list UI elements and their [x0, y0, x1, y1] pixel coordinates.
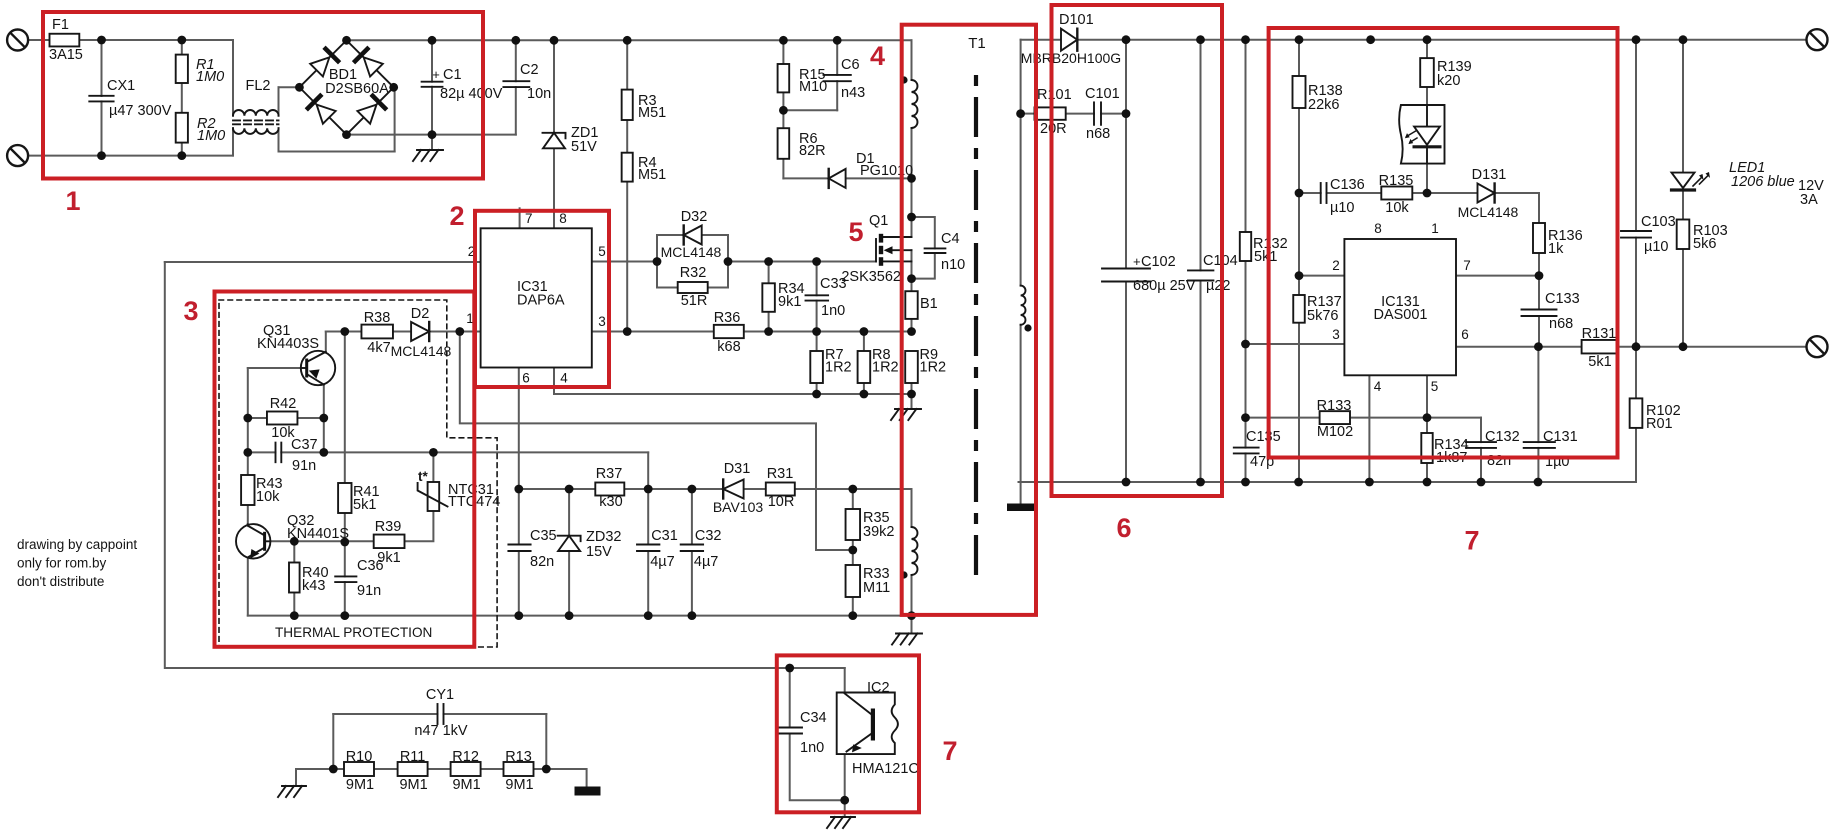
- svg-text:5k1: 5k1: [1254, 249, 1277, 265]
- svg-text:R10: R10: [346, 749, 373, 765]
- svg-text:2: 2: [449, 201, 464, 231]
- svg-text:7: 7: [1464, 526, 1479, 556]
- svg-text:1k: 1k: [1548, 241, 1564, 257]
- svg-text:82µ 400V: 82µ 400V: [440, 86, 503, 102]
- svg-text:9M1: 9M1: [452, 777, 480, 793]
- svg-text:3: 3: [1332, 327, 1340, 342]
- svg-text:HMA121C: HMA121C: [852, 761, 919, 777]
- svg-text:Q1: Q1: [869, 213, 888, 229]
- svg-text:MCL4148: MCL4148: [391, 343, 452, 359]
- svg-text:C34: C34: [800, 710, 827, 726]
- svg-text:n47 1kV: n47 1kV: [414, 723, 468, 739]
- svg-text:1n0: 1n0: [821, 303, 845, 319]
- svg-text:R31: R31: [767, 466, 794, 482]
- svg-text:10k: 10k: [256, 489, 280, 505]
- svg-text:3A: 3A: [1800, 192, 1818, 208]
- svg-text:D32: D32: [681, 209, 708, 225]
- svg-text:C136: C136: [1330, 177, 1365, 193]
- svg-text:k20: k20: [1437, 73, 1460, 89]
- svg-text:C133: C133: [1545, 291, 1580, 307]
- svg-text:C132: C132: [1485, 429, 1520, 445]
- svg-text:C135: C135: [1246, 429, 1281, 445]
- svg-text:µ10: µ10: [1330, 200, 1354, 216]
- svg-text:µ47 300V: µ47 300V: [109, 103, 172, 119]
- svg-text:5k1: 5k1: [353, 497, 376, 513]
- svg-text:DAP6A: DAP6A: [517, 293, 565, 309]
- svg-text:15V: 15V: [586, 544, 612, 560]
- svg-text:KN4403S: KN4403S: [257, 336, 319, 352]
- svg-text:3: 3: [183, 296, 198, 326]
- svg-text:8: 8: [559, 211, 567, 226]
- svg-text:6: 6: [522, 371, 530, 386]
- svg-text:THERMAL PROTECTION: THERMAL PROTECTION: [275, 625, 432, 640]
- svg-text:10k: 10k: [1385, 200, 1409, 216]
- svg-text:5: 5: [1431, 379, 1439, 394]
- svg-text:39k2: 39k2: [863, 524, 894, 540]
- svg-text:R37: R37: [596, 466, 623, 482]
- svg-text:C6: C6: [841, 57, 860, 73]
- svg-text:6: 6: [1116, 513, 1131, 543]
- svg-text:R12: R12: [452, 749, 479, 765]
- svg-text:51V: 51V: [571, 139, 597, 155]
- svg-text:PG1010: PG1010: [860, 163, 913, 179]
- svg-text:T1: T1: [968, 35, 986, 52]
- svg-text:1: 1: [1431, 221, 1439, 236]
- svg-text:1M0: 1M0: [197, 128, 225, 144]
- svg-text:BAV103: BAV103: [713, 499, 764, 515]
- svg-text:C1: C1: [443, 67, 462, 83]
- svg-text:t*: t*: [418, 469, 428, 484]
- svg-text:6: 6: [1461, 327, 1469, 342]
- svg-text:M51: M51: [638, 167, 666, 183]
- svg-text:D2SB60A: D2SB60A: [325, 81, 389, 97]
- svg-text:DAS001: DAS001: [1373, 307, 1427, 323]
- svg-text:1n0: 1n0: [800, 740, 824, 756]
- svg-text:82R: 82R: [799, 143, 826, 159]
- svg-text:7: 7: [525, 211, 533, 226]
- svg-text:KN4401S: KN4401S: [287, 526, 349, 542]
- svg-text:CY1: CY1: [426, 687, 454, 703]
- svg-text:MCL4148: MCL4148: [661, 244, 722, 260]
- svg-text:R101: R101: [1037, 87, 1072, 103]
- svg-text:C4: C4: [941, 231, 960, 247]
- svg-text:22k6: 22k6: [1308, 97, 1339, 113]
- svg-text:4µ7: 4µ7: [694, 554, 718, 570]
- svg-text:R01: R01: [1646, 416, 1673, 432]
- svg-text:C37: C37: [291, 437, 318, 453]
- svg-text:1206 blue: 1206 blue: [1731, 174, 1795, 190]
- svg-text:k30: k30: [599, 494, 622, 510]
- svg-text:9k1: 9k1: [377, 550, 400, 566]
- svg-text:R135: R135: [1379, 173, 1414, 189]
- svg-text:4: 4: [560, 371, 568, 386]
- svg-text:C35: C35: [530, 528, 557, 544]
- svg-text:9M1: 9M1: [505, 777, 533, 793]
- svg-text:1R2: 1R2: [872, 360, 899, 376]
- svg-text:n43: n43: [841, 85, 865, 101]
- svg-text:82n: 82n: [530, 554, 554, 570]
- svg-text:M10: M10: [799, 79, 827, 95]
- svg-text:C2: C2: [520, 62, 539, 78]
- svg-text:R11: R11: [400, 749, 426, 765]
- svg-text:1R2: 1R2: [825, 360, 852, 376]
- svg-text:CX1: CX1: [107, 78, 135, 94]
- svg-text:R38: R38: [364, 310, 391, 326]
- svg-text:91n: 91n: [357, 583, 381, 599]
- svg-text:91n: 91n: [292, 458, 316, 474]
- svg-text:9M1: 9M1: [399, 777, 427, 793]
- svg-text:10R: 10R: [768, 494, 795, 510]
- svg-text:D31: D31: [724, 461, 751, 477]
- svg-text:k43: k43: [302, 578, 325, 594]
- svg-text:n10: n10: [941, 257, 965, 273]
- svg-text:D131: D131: [1472, 167, 1507, 183]
- svg-text:drawing by cappoint: drawing by cappoint: [17, 537, 137, 552]
- svg-text:9M1: 9M1: [346, 777, 374, 793]
- svg-text:4: 4: [1374, 379, 1382, 394]
- svg-text:MCL4148: MCL4148: [1458, 204, 1519, 220]
- svg-text:7: 7: [1463, 258, 1471, 273]
- svg-text:51R: 51R: [681, 293, 708, 309]
- svg-text:4µ7: 4µ7: [650, 554, 674, 570]
- svg-text:R39: R39: [375, 519, 402, 535]
- svg-text:5: 5: [598, 244, 606, 259]
- svg-text:9k1: 9k1: [778, 294, 801, 310]
- svg-text:2: 2: [1332, 258, 1340, 273]
- svg-text:C32: C32: [695, 528, 722, 544]
- svg-text:C102: C102: [1141, 254, 1176, 270]
- svg-text:R13: R13: [505, 749, 532, 765]
- svg-text:R42: R42: [270, 396, 297, 412]
- svg-text:ZD32: ZD32: [586, 529, 621, 545]
- svg-text:M11: M11: [863, 580, 890, 596]
- svg-text:C131: C131: [1543, 429, 1578, 445]
- svg-text:5k1: 5k1: [1588, 354, 1611, 370]
- svg-text:10n: 10n: [527, 86, 551, 102]
- svg-text:1M0: 1M0: [196, 69, 224, 85]
- svg-text:µ22: µ22: [1206, 278, 1230, 294]
- svg-text:2SK3562: 2SK3562: [841, 269, 901, 285]
- svg-text:5: 5: [848, 217, 863, 247]
- svg-text:FL2: FL2: [246, 78, 271, 94]
- svg-text:7: 7: [942, 736, 957, 766]
- svg-text:M102: M102: [1317, 424, 1353, 440]
- svg-text:82n: 82n: [1487, 453, 1511, 469]
- svg-text:don't distribute: don't distribute: [17, 574, 104, 589]
- svg-text:R133: R133: [1317, 398, 1352, 414]
- svg-text:B1: B1: [920, 296, 938, 312]
- svg-text:k68: k68: [717, 339, 740, 355]
- svg-text:3A15: 3A15: [49, 47, 83, 63]
- svg-text:F1: F1: [52, 17, 69, 33]
- svg-text:5k76: 5k76: [1307, 308, 1338, 324]
- svg-text:R36: R36: [714, 310, 741, 326]
- svg-text:R32: R32: [680, 265, 707, 281]
- svg-text:680µ 25V: 680µ 25V: [1133, 278, 1196, 294]
- svg-text:C31: C31: [651, 528, 678, 544]
- svg-text:3: 3: [598, 314, 606, 329]
- svg-text:IC2: IC2: [867, 680, 890, 696]
- svg-text:+: +: [432, 67, 440, 82]
- svg-text:C101: C101: [1085, 86, 1120, 102]
- svg-text:4k7: 4k7: [367, 340, 390, 356]
- svg-text:only for rom.by: only for rom.by: [17, 556, 107, 571]
- svg-text:n68: n68: [1086, 126, 1110, 142]
- svg-text:M51: M51: [638, 105, 666, 121]
- svg-text:1R2: 1R2: [920, 360, 947, 376]
- svg-text:8: 8: [1374, 221, 1382, 236]
- svg-text:n68: n68: [1549, 316, 1573, 332]
- svg-text:5k6: 5k6: [1693, 236, 1716, 252]
- svg-text:R131: R131: [1582, 326, 1617, 342]
- svg-text:C103: C103: [1641, 214, 1676, 230]
- svg-text:µ10: µ10: [1644, 239, 1668, 255]
- svg-text:1: 1: [65, 186, 80, 216]
- svg-text:D2: D2: [411, 306, 430, 322]
- svg-text:4: 4: [870, 41, 885, 71]
- svg-text:D101: D101: [1059, 12, 1094, 28]
- svg-text:+: +: [1133, 254, 1141, 269]
